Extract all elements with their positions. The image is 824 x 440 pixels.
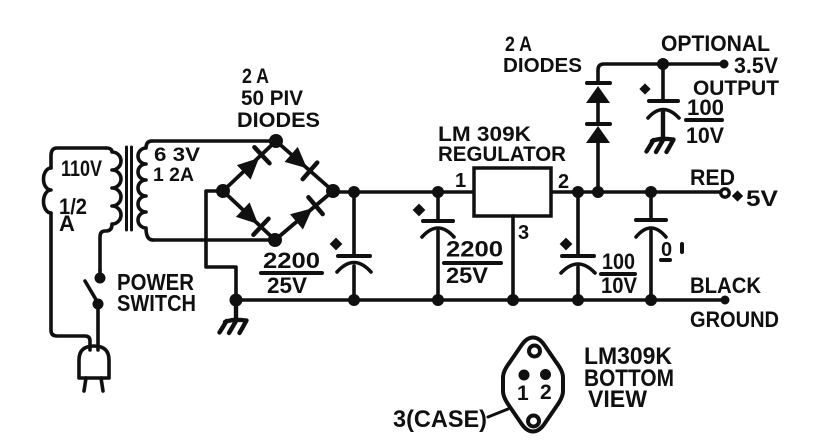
node: C4 bottom <box>645 294 657 306</box>
wire: primary loop top from fuse corner to transformer primary <box>51 148 106 168</box>
svg-text:100: 100 <box>602 249 635 274</box>
svg-text:110V: 110V <box>61 156 102 181</box>
terminal: ground BLACK <box>721 296 730 305</box>
ground symbol (main) <box>230 294 243 307</box>
svg-text:VIEW: VIEW <box>588 386 647 413</box>
AC plug P1 <box>79 346 109 378</box>
svg-text:BLACK: BLACK <box>690 273 761 298</box>
svg-text:5V: 5V <box>746 186 778 211</box>
svg-text:2200: 2200 <box>263 248 320 273</box>
wire: secondary top to bridge top node <box>152 139 276 143</box>
diode D5 lower series <box>586 126 610 143</box>
svg-text:2 A: 2 A <box>505 33 532 56</box>
svg-text:25V: 25V <box>446 263 488 288</box>
svg-text:1: 1 <box>517 382 529 405</box>
diode D4 bottom-right <box>289 197 322 230</box>
svg-text:1: 1 <box>455 170 466 192</box>
package mounting hole bottom <box>528 416 539 427</box>
bridge rectifier diamond wires <box>223 141 333 240</box>
capacitor C1 2200/25V <box>352 192 356 300</box>
svg-text:3: 3 <box>518 222 529 244</box>
capacitor C2 2200/25V <box>436 192 440 300</box>
polarity + mark C5 <box>639 83 650 94</box>
ground symbol (optional output) <box>647 112 674 152</box>
svg-text:SWITCH: SWITCH <box>117 290 196 316</box>
package pin 1 dot <box>519 370 530 381</box>
wire: positive rail bridge to regulator <box>333 190 474 194</box>
diode D1 top-left <box>236 147 269 180</box>
power switch S1 <box>95 273 106 284</box>
label +5V <box>732 190 743 201</box>
node: bridge top <box>269 134 283 148</box>
svg-text:2 A: 2 A <box>242 65 269 88</box>
svg-text:A: A <box>59 211 75 236</box>
node: C1 top <box>348 186 360 198</box>
svg-text:50 PIV: 50 PIV <box>241 87 303 110</box>
svg-text:100: 100 <box>687 95 724 120</box>
svg-text:3.5V: 3.5V <box>734 53 778 78</box>
node: bridge left <box>216 184 230 198</box>
node: C3 bottom <box>572 294 584 306</box>
node: C2 top <box>432 186 444 198</box>
svg-text:6 3V: 6 3V <box>154 145 200 166</box>
node: C4 top <box>645 186 657 198</box>
node: C5 top junction <box>657 58 669 70</box>
package pin 2 dot <box>540 369 551 380</box>
fuse F1 1/2A in left leg <box>44 168 52 213</box>
wire: left leg below fuse down and right to plug <box>51 213 90 350</box>
transformer T1 core <box>127 147 132 230</box>
wire: ground rail <box>236 298 725 302</box>
node: diode string rail junction <box>592 186 604 198</box>
svg-text:10V: 10V <box>686 123 724 148</box>
svg-text:GROUND: GROUND <box>690 307 779 332</box>
diode D2 top-right <box>284 146 317 179</box>
svg-text:3(CASE): 3(CASE) <box>393 406 487 433</box>
svg-text:0: 0 <box>661 239 672 261</box>
polarity + mark C2 <box>413 204 426 217</box>
svg-text:RED: RED <box>690 165 735 190</box>
LM309K package outline TO-3 bottom view <box>503 338 563 432</box>
diode D6 upper series <box>586 86 610 103</box>
terminal: +5V RED <box>721 189 729 197</box>
wire: secondary bottom to bridge bottom node <box>153 238 275 242</box>
svg-text:2200: 2200 <box>446 237 503 262</box>
capacitor C4 .01 <box>649 192 653 300</box>
node: pin3 ground junction <box>507 294 519 306</box>
capacitor C5 100/10V optional output <box>661 64 665 140</box>
transformer T1 secondary winding 6.3V 1.2A <box>138 141 153 240</box>
svg-text:REGULATOR: REGULATOR <box>438 143 566 166</box>
polarity + mark C3 <box>560 238 573 251</box>
capacitor C3 100/10V <box>576 192 580 300</box>
svg-text:DIODES: DIODES <box>237 109 320 132</box>
svg-text:2: 2 <box>540 381 552 404</box>
wire: positive rail regulator to +5V terminal <box>551 190 725 194</box>
wire: rail up through series diodes to optional output <box>598 64 724 192</box>
svg-text:DIODES: DIODES <box>503 55 582 77</box>
node: C3 top <box>572 186 584 198</box>
node: bridge right <box>326 184 340 198</box>
wire: pin 3 to ground rail <box>511 216 515 300</box>
svg-text:1 2A: 1 2A <box>153 165 194 186</box>
svg-text:10V: 10V <box>601 273 637 298</box>
node: C2 bottom <box>432 294 444 306</box>
regulator U1 LM309K box <box>474 168 551 216</box>
transformer T1 primary winding <box>100 148 121 270</box>
package mounting hole top <box>529 346 540 357</box>
node: C1 bottom <box>348 294 360 306</box>
diode D3 bottom-left <box>235 202 268 235</box>
polarity + mark C1 <box>330 238 343 251</box>
svg-text:2: 2 <box>558 171 569 193</box>
svg-text:25V: 25V <box>267 273 307 298</box>
terminal: 3.5V output <box>720 60 729 69</box>
node: bridge bottom <box>268 233 282 247</box>
wire: bridge left node to ground rail <box>206 191 236 300</box>
